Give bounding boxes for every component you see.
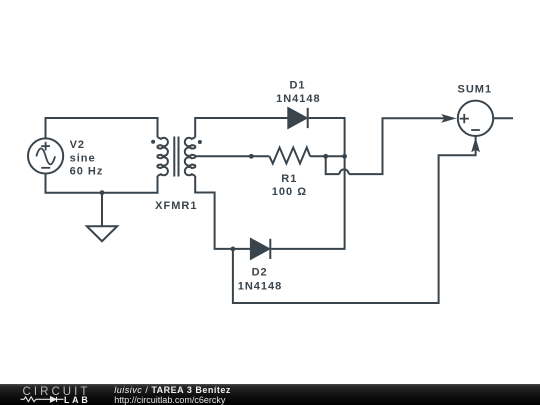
- svg-text:D2: D2: [252, 266, 268, 278]
- svg-text:100 Ω: 100 Ω: [272, 186, 307, 198]
- wire: R1 node to SUM1 plus input, with hop over vertical wire: [326, 156, 340, 174]
- diode D1: [288, 108, 307, 128]
- node junction at D2 anode: [231, 247, 236, 252]
- wire: hop to SUM1 plus input: [349, 118, 450, 174]
- CircuitLab logo: resistor-diode squiggle: [21, 397, 64, 402]
- svg-text:1N4148: 1N4148: [238, 281, 283, 293]
- phase dot primary: [151, 140, 155, 144]
- wire: node A down to D2 cathode: [271, 156, 344, 249]
- wire: SUM1 minus input down and around to XFMR1 secondary bottom: [233, 146, 476, 303]
- svg-text:R1: R1: [281, 173, 297, 185]
- svg-text:http://circuitlab.com/c6ercky: http://circuitlab.com/c6ercky: [114, 395, 226, 405]
- wire: XFMR1 secondary bottom to D2 anode: [195, 176, 251, 249]
- transformer XFMR1 primary winding: [157, 137, 168, 176]
- wire hop over crossing: [339, 169, 348, 174]
- ground: [87, 193, 117, 242]
- svg-text:LAB: LAB: [64, 395, 90, 405]
- svg-text:V2: V2: [70, 139, 85, 151]
- arrowhead into SUM1 plus input: [441, 114, 456, 123]
- summing block SUM1: [458, 101, 493, 136]
- node junction on center tap wire: [249, 154, 254, 159]
- wire top: V2 to XFMR1 primary top: [46, 118, 158, 138]
- svg-text:60 Hz: 60 Hz: [70, 166, 104, 178]
- node junction at R1 output: [323, 154, 328, 159]
- svg-text:XFMR1: XFMR1: [155, 200, 197, 212]
- svg-text:sine: sine: [70, 152, 96, 164]
- wire: D1 cathode to node A: [309, 118, 345, 156]
- svg-text:D1: D1: [289, 80, 305, 92]
- diode D2: [251, 239, 270, 259]
- transformer XFMR1 secondary winding: [185, 137, 196, 176]
- node junction A: [342, 154, 347, 159]
- SUM1 output stub: [494, 117, 513, 119]
- wire: XFMR1 secondary top to D1 anode: [195, 118, 288, 137]
- resistor R1: [269, 148, 310, 164]
- arrowhead into SUM1 minus input: [471, 137, 480, 152]
- transformer XFMR1 core: [174, 137, 178, 177]
- svg-text:1N4148: 1N4148: [276, 93, 321, 105]
- wire: R1 right to node A: [310, 155, 345, 157]
- svg-text:SUM1: SUM1: [458, 84, 493, 96]
- svg-text:luisivc / TAREA 3 Benítez: luisivc / TAREA 3 Benítez: [114, 385, 231, 395]
- node junction at ground tap: [100, 190, 105, 195]
- voltage source V2: [28, 138, 63, 173]
- wire: SUM1 bottom stub: [475, 136, 477, 143]
- wire bottom: V2 to XFMR1 primary bottom: [46, 175, 158, 193]
- phase dot secondary: [198, 140, 202, 144]
- wire: XFMR1 center tap to R1: [195, 155, 269, 157]
